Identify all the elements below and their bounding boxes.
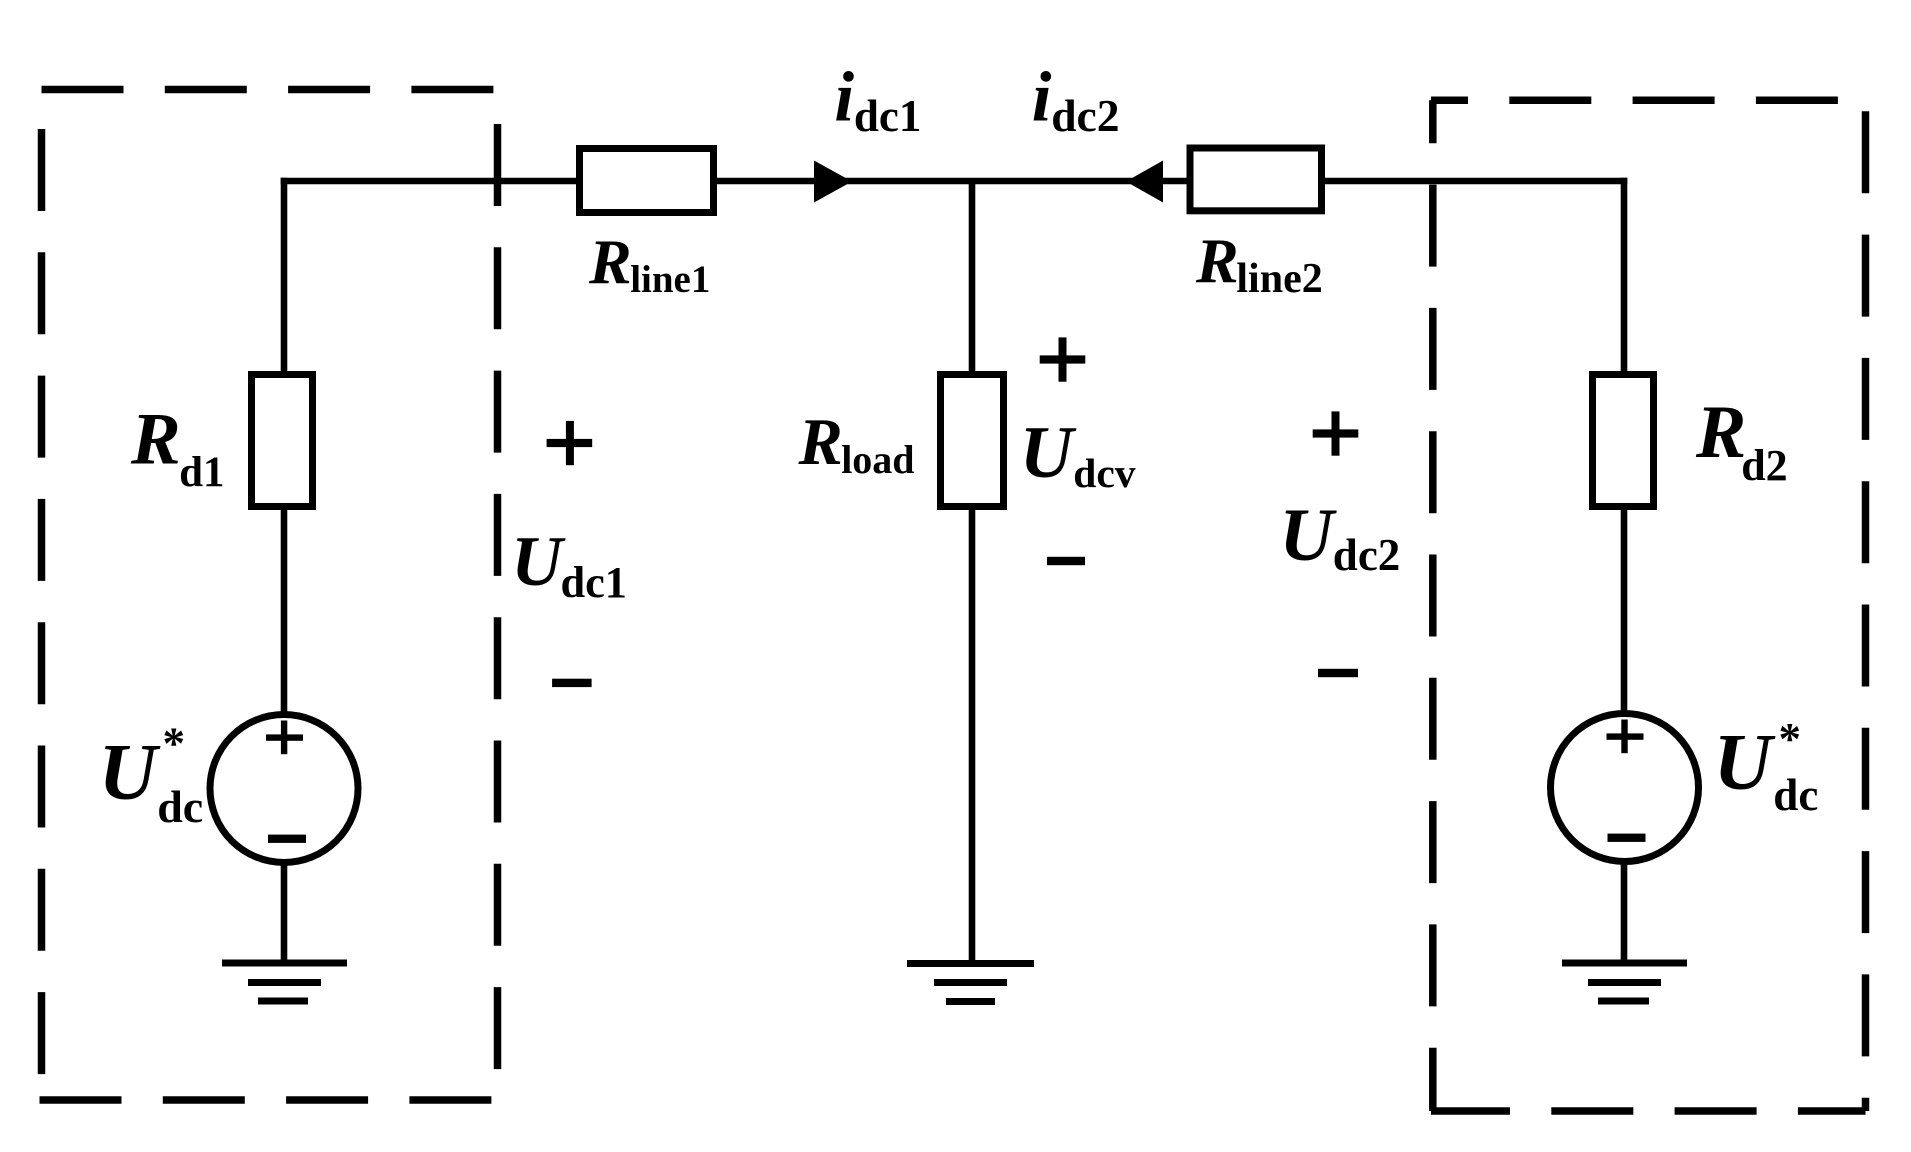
ground right bbox=[1562, 960, 1687, 967]
voltage source circle left bbox=[210, 715, 358, 863]
minus inside right source bbox=[1608, 834, 1646, 842]
svg-text:dc: dc bbox=[1773, 770, 1818, 820]
svg-text:load: load bbox=[841, 437, 914, 482]
wire: right vertical top bbox=[1621, 178, 1628, 375]
svg-text:i: i bbox=[1032, 59, 1052, 137]
resistor Rload bbox=[941, 375, 1004, 507]
svg-text:U: U bbox=[1714, 717, 1776, 807]
voltage source circle right bbox=[1551, 714, 1699, 862]
wire: Rline1 to Rline2 through junction bbox=[713, 178, 1190, 185]
wire: middle vertical from junction bbox=[969, 181, 976, 375]
svg-text:*: * bbox=[1779, 714, 1802, 764]
ground left bbox=[222, 960, 347, 967]
svg-text:dc2: dc2 bbox=[1333, 530, 1401, 580]
wire: left source to ground bbox=[281, 862, 288, 963]
ground middle bbox=[907, 960, 1034, 967]
converter 1 boundary (left dashed box) bbox=[40, 90, 498, 1101]
svg-text:dc: dc bbox=[157, 781, 203, 832]
converter 2 boundary (right dashed box) bbox=[1431, 100, 1866, 1111]
plus sign Udc2 bbox=[1313, 429, 1359, 437]
svg-text:line1: line1 bbox=[630, 258, 710, 301]
plus inside right source bbox=[1607, 733, 1644, 739]
svg-text:R: R bbox=[588, 226, 632, 297]
wire: right source to ground bbox=[1621, 861, 1628, 963]
minus inside left source bbox=[268, 835, 306, 843]
wire: top bus left segment bbox=[281, 178, 580, 185]
resistor Rd2 bbox=[1593, 375, 1654, 507]
svg-text:i: i bbox=[834, 59, 854, 137]
resistor Rd1 bbox=[252, 375, 313, 507]
svg-text:R: R bbox=[130, 398, 181, 480]
wire: Rload to middle ground bbox=[969, 506, 976, 963]
svg-text:*: * bbox=[163, 718, 186, 768]
wire: Rd2 to source U*dc right bbox=[1621, 506, 1628, 717]
svg-text:line2: line2 bbox=[1236, 256, 1322, 302]
svg-text:d2: d2 bbox=[1741, 441, 1787, 490]
svg-text:U: U bbox=[99, 727, 161, 817]
plus sign Udc1 bbox=[547, 439, 593, 447]
svg-text:R: R bbox=[1695, 391, 1746, 474]
svg-text:U: U bbox=[1020, 412, 1077, 494]
plus sign Udcv bbox=[1040, 355, 1086, 363]
svg-text:U: U bbox=[511, 523, 566, 601]
wire: Rd1 to source U*dc left bbox=[281, 506, 288, 717]
resistor Rline1 bbox=[580, 149, 714, 213]
svg-text:R: R bbox=[798, 406, 843, 479]
svg-text:dc1: dc1 bbox=[561, 558, 627, 607]
wire: left vertical top bbox=[281, 178, 288, 375]
minus sign Udc2 bbox=[1318, 669, 1358, 677]
plus inside left source bbox=[266, 734, 303, 740]
minus sign Udcv bbox=[1047, 557, 1085, 565]
wire: Rline2 to right corner bbox=[1318, 178, 1627, 185]
svg-text:dc2: dc2 bbox=[1051, 90, 1119, 141]
arrowhead i_dc2 (points left) bbox=[1126, 161, 1163, 203]
svg-text:dc1: dc1 bbox=[854, 91, 922, 141]
resistor Rline2 bbox=[1190, 148, 1322, 211]
svg-text:U: U bbox=[1279, 494, 1337, 577]
arrowhead i_dc1 (points right) bbox=[814, 161, 852, 203]
svg-text:R: R bbox=[1195, 225, 1239, 296]
svg-text:dcv: dcv bbox=[1073, 450, 1136, 496]
svg-text:d1: d1 bbox=[179, 449, 224, 496]
minus sign Udc1 bbox=[552, 679, 592, 687]
